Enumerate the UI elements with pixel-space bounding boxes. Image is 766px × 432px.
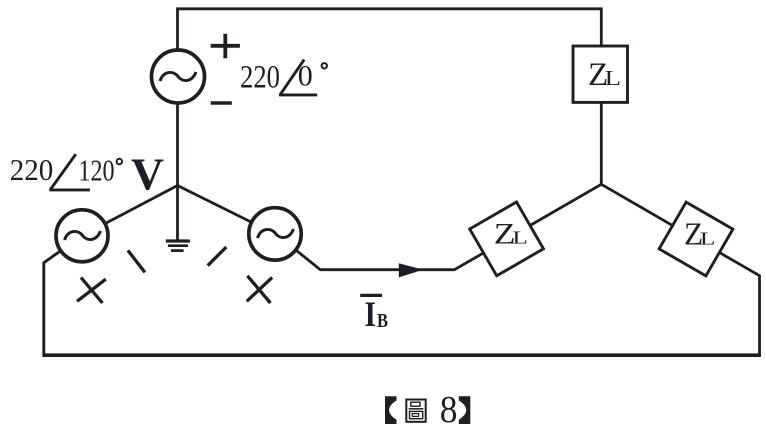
wire node N to source Vc [178, 186, 252, 223]
svg-text:220: 220 [10, 152, 54, 187]
wire Y node to load ZL2 [530, 184, 601, 225]
polarity minus of Vc (rotated dash) [208, 247, 227, 266]
wire top bus from source Va to load ZL1 [178, 9, 602, 51]
polarity minus of Vb (rotated dash) [128, 250, 145, 272]
polarity plus of Vb (rotated cross) [77, 278, 106, 304]
svg-text:L: L [512, 228, 527, 247]
label 220 angle 0 degrees [240, 59, 327, 95]
polarity plus of Va [211, 34, 240, 59]
load ZL1 (top) [573, 46, 628, 102]
svg-text:L: L [700, 229, 715, 248]
label 220 angle 120 degrees V [10, 149, 164, 200]
wire Vb to bottom-left corner [44, 251, 60, 355]
wire ZL1 to Y node [600, 102, 603, 184]
source Va (220 angle 0) [152, 50, 205, 103]
load ZL2 (bottom-left, rotated) [470, 202, 544, 276]
polarity minus of Va [211, 101, 232, 105]
svg-text:0: 0 [298, 60, 313, 93]
ground symbol [166, 241, 190, 251]
svg-text:L: L [605, 68, 621, 91]
caption character Tu (figure) drawn [406, 400, 425, 422]
wire node N to source Vb [106, 186, 178, 224]
wire Y node to load ZL3 [601, 184, 672, 225]
svg-text:220: 220 [240, 59, 280, 95]
svg-text:120: 120 [78, 153, 114, 188]
wire source Va to node N [176, 103, 179, 186]
wire ZL3 to bottom-right corner [719, 253, 759, 357]
wire Vc to load ZL2 (line B) [296, 250, 483, 269]
svg-text:I: I [365, 294, 377, 334]
wire bottom return [42, 353, 761, 357]
current arrow IB [399, 263, 423, 277]
source Vc (phase B) [249, 208, 301, 260]
source Vb (220 angle 120) [56, 210, 108, 262]
polarity plus of Vc (rotated cross) [247, 276, 272, 303]
svg-text:8: 8 [440, 388, 458, 431]
svg-text:V: V [131, 149, 164, 200]
node N neutral junction: wire to ground [176, 186, 179, 242]
load ZL3 (bottom-right, rotated) [659, 202, 733, 276]
caption bracket right [459, 396, 471, 424]
label IB with overbar [360, 294, 388, 334]
caption bracket left [385, 396, 397, 424]
svg-text:B: B [377, 310, 388, 332]
